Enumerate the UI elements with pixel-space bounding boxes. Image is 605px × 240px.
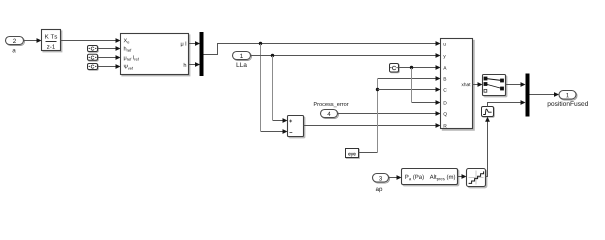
outport 1 "positionFused" [548, 91, 588, 108]
wire Pa -> quantizer [458, 174, 467, 179]
selector block [483, 75, 507, 97]
wire mux1 -> Kalman u (jog up) [204, 41, 441, 54]
wire subsystem out1 -> mux1 [189, 41, 201, 46]
constant C3 (-C-) [88, 64, 99, 71]
sum block [288, 116, 305, 138]
constant -C- (state matrix) [390, 64, 400, 73]
mux Mux2 [526, 74, 530, 117]
wire C3 -> subsystem Psi_ref [98, 64, 121, 69]
constant C1 (-C-) [88, 46, 99, 53]
wire quantizer -> filter (up) [485, 117, 490, 177]
wire C2 -> subsystem mu_ref [98, 55, 121, 60]
inport 4 "Process_error" [314, 102, 349, 118]
wire subsystem out2 -> mux1 [189, 62, 201, 67]
quantizer block [467, 169, 487, 188]
junction node on y line [271, 54, 274, 57]
inport 3 "ap" [373, 174, 390, 193]
subsystem block (controller) [121, 34, 190, 76]
wire KTs -> subsystem Xe [61, 38, 121, 43]
junction node (-C- -> D) [410, 66, 413, 69]
wire a -> KTs [24, 38, 42, 43]
inport 2 "a" [6, 37, 25, 53]
junction node (eye -> C) [376, 88, 379, 91]
wire ap -> Pa block [389, 175, 402, 180]
junction node on u line [259, 42, 262, 45]
Kalman filter block [441, 39, 475, 131]
wire eye -> Kalman B [359, 76, 441, 152]
filter block (lowpass, up-oriented) [482, 107, 495, 118]
wire filter -> mux2 [488, 100, 526, 106]
wire branch -> Kalman C [378, 87, 441, 92]
inport 1 "LLa" [233, 52, 252, 68]
wire mux2 -> positionFused [530, 92, 560, 97]
wire xhat -> selector [473, 82, 483, 87]
wire branch down to sum plus [273, 56, 288, 123]
wire LLa -> Kalman y [251, 53, 441, 58]
wire branch down -> Kalman D [412, 68, 441, 105]
mux Mux1 [200, 32, 204, 76]
pressure-altitude block [402, 169, 459, 186]
wire branch down to sum minus [261, 44, 288, 134]
wire Process_error -> Kalman Q [338, 111, 441, 116]
wire selector -> mux2 [506, 82, 526, 87]
wire -C- -> Kalman A [399, 65, 441, 70]
block K Ts / z-1 (discrete integrator) [42, 30, 62, 52]
constant eye [346, 149, 360, 159]
wire sum -> Kalman R [304, 123, 441, 128]
wire C1 -> subsystem h_ref [98, 46, 121, 51]
constant C2 (-C-) [88, 54, 99, 61]
